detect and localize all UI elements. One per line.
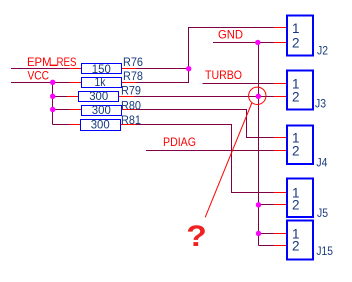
svg-text:300: 300 (91, 118, 110, 132)
resistor R81 body (81, 120, 121, 131)
junction J15 pin1 (256, 231, 261, 236)
junction R80 branch (50, 107, 55, 112)
svg-text:300: 300 (92, 103, 111, 117)
wire GND trunk vertical (258, 43, 260, 246)
svg-text:TURBO: TURBO (205, 68, 242, 82)
annotation diagonal line (205, 103, 252, 218)
wire PDIAG to J4 pin2 (146, 150, 274, 152)
pin J4.2 (274, 150, 287, 152)
wire TURBO to J3 pin1 (203, 83, 274, 85)
wire VCC to R78 left (11, 82, 70, 84)
pin J15.2 (274, 245, 287, 247)
pin J15.1 (274, 233, 287, 235)
svg-text:2: 2 (292, 198, 300, 213)
svg-text:VCC: VCC (28, 69, 50, 83)
wire EPM_RES to R76 left (11, 68, 70, 70)
junction VCC/R78 (50, 80, 55, 85)
svg-text:?: ? (186, 219, 207, 253)
wire branch to R79 left (53, 96, 68, 98)
svg-text:J15: J15 (316, 244, 333, 258)
wire R78 right up to J2 pin1 (136, 28, 274, 83)
pin J3.2 (274, 96, 287, 98)
pin R80.2 (122, 109, 137, 111)
pin R76.1 (70, 68, 82, 70)
svg-text:300: 300 (89, 89, 108, 103)
svg-text:RES: RES (57, 55, 77, 69)
pin J2.1 (274, 27, 287, 29)
svg-text:2: 2 (292, 238, 300, 253)
wire R80 right to J4 pin1 (136, 110, 274, 138)
wire J15 pin1 branch (259, 233, 274, 235)
pin J5.2 (274, 204, 287, 206)
wire R76 right to junction (136, 68, 189, 70)
svg-text:PDIAG: PDIAG (163, 135, 196, 149)
annotation question mark (186, 219, 207, 253)
svg-text:2: 2 (292, 35, 300, 50)
junction J3 pin2 (256, 94, 261, 99)
resistor R76 body (82, 64, 122, 74)
svg-text:R76: R76 (123, 55, 143, 69)
pin R76.2 (122, 68, 137, 70)
wire branch to R80 left (53, 109, 70, 111)
junction R76/R78 (186, 66, 191, 71)
svg-text:R80: R80 (121, 98, 141, 112)
pin R81.1 (69, 124, 81, 126)
svg-text:J3: J3 (315, 97, 326, 111)
pin R79.2 (119, 96, 135, 98)
svg-text:J4: J4 (316, 156, 327, 170)
wire J15 pin2 (259, 245, 274, 247)
pin R79.1 (67, 96, 79, 98)
wire R79 right to J3 pin2 (134, 96, 274, 98)
connector J3 body (287, 71, 313, 110)
highlight circle annotation (249, 87, 266, 104)
resistor R80 body (82, 106, 122, 116)
connector J2 body (287, 16, 313, 56)
svg-text:R79: R79 (121, 84, 141, 98)
pin R81.2 (121, 124, 137, 126)
junction R79 branch (50, 94, 55, 99)
resistor R78 body (82, 78, 122, 88)
svg-text:J2: J2 (317, 44, 328, 58)
pin J3.1 (274, 83, 287, 85)
resistor R79 body (79, 92, 119, 102)
svg-text:GND: GND (218, 28, 243, 42)
svg-text:EPM: EPM (27, 55, 52, 69)
wire R81 right to J5 pin1 (136, 125, 274, 193)
svg-text:R78: R78 (123, 69, 143, 83)
connector J15 body (287, 221, 313, 260)
svg-text:R81: R81 (121, 113, 141, 127)
connector J4 body (287, 126, 313, 165)
wire VCC trunk vertical (52, 83, 54, 125)
wire J5 pin2 branch (259, 204, 274, 206)
pin J4.1 (274, 137, 287, 139)
pin J5.1 (274, 192, 287, 194)
svg-text:2: 2 (292, 143, 300, 158)
wire GND to J2 pin2 (213, 42, 274, 44)
pin J2.2 (274, 42, 287, 44)
junction GND trunk (255, 40, 260, 45)
pin R78.1 (70, 82, 82, 84)
connector J5 body (287, 179, 313, 218)
svg-text:J5: J5 (317, 206, 328, 220)
svg-text:1: 1 (292, 21, 300, 36)
junction J5 pin2 (256, 202, 261, 207)
pin R80.1 (70, 109, 82, 111)
svg-text:1k: 1k (95, 75, 107, 89)
svg-text:2: 2 (292, 89, 300, 104)
wire branch to R81 left (53, 124, 70, 126)
pin R78.2 (122, 82, 137, 84)
svg-text:150: 150 (92, 62, 111, 76)
